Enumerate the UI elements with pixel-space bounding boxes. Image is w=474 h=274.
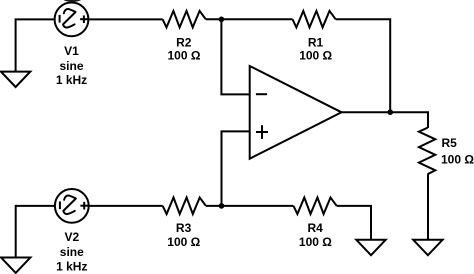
svg-text:100 Ω: 100 Ω (441, 153, 474, 167)
ground G3 (R4) (356, 240, 385, 255)
ground G4 (R5) (413, 240, 442, 255)
svg-text:V1: V1 (64, 44, 79, 58)
wire node B up to non-inverting input (222, 131, 250, 206)
svg-text:100 Ω: 100 Ω (299, 235, 332, 249)
svg-text:R3: R3 (176, 221, 192, 235)
wire V2 to R3 (89, 205, 162, 207)
label V2 (56, 230, 87, 273)
op-amp U1 (250, 66, 342, 159)
label R5 (441, 136, 474, 167)
resistor R2 (163, 11, 206, 28)
ground G2 (V2) (1, 258, 30, 273)
resistor R4 (294, 198, 337, 215)
wire R2 to R1 (206, 18, 293, 20)
wire V2 left lead (16, 206, 55, 257)
voltage source V2 (55, 189, 89, 223)
svg-text:1 kHz: 1 kHz (56, 73, 87, 87)
label V1 (56, 44, 87, 87)
wire R4 to ground (337, 206, 371, 240)
svg-text:sine: sine (60, 245, 84, 259)
wire V1 left lead (16, 19, 54, 71)
svg-text:100 Ω: 100 Ω (299, 49, 332, 63)
node B junction dot (219, 203, 225, 209)
wire R5 to ground (427, 174, 429, 239)
voltage source V1 (55, 3, 89, 37)
svg-text:R5: R5 (442, 136, 458, 150)
svg-text:100 Ω: 100 Ω (168, 49, 201, 63)
resistor R1 (293, 11, 336, 28)
wire op-amp output (342, 112, 429, 128)
svg-text:R1: R1 (308, 35, 324, 49)
svg-text:V2: V2 (64, 230, 79, 244)
wire R1 to feedback corner (336, 19, 391, 112)
node OUT junction dot (387, 109, 393, 115)
label R4 (299, 221, 332, 249)
label R3 (167, 221, 200, 249)
svg-text:sine: sine (59, 59, 83, 73)
label R1 (299, 35, 332, 62)
wire V1 to R2 (89, 18, 163, 20)
ground G1 (V1) (1, 72, 30, 87)
wire R3 to R4 (206, 205, 294, 207)
wire node A down to inverting input (221, 19, 249, 94)
label R2 (168, 35, 201, 62)
svg-text:1 kHz: 1 kHz (56, 259, 87, 273)
resistor R5 (419, 128, 435, 175)
resistor R3 (163, 198, 206, 215)
svg-text:100 Ω: 100 Ω (167, 235, 200, 249)
svg-text:R2: R2 (176, 35, 192, 49)
svg-text:R4: R4 (308, 221, 324, 235)
node A junction dot (219, 17, 225, 23)
